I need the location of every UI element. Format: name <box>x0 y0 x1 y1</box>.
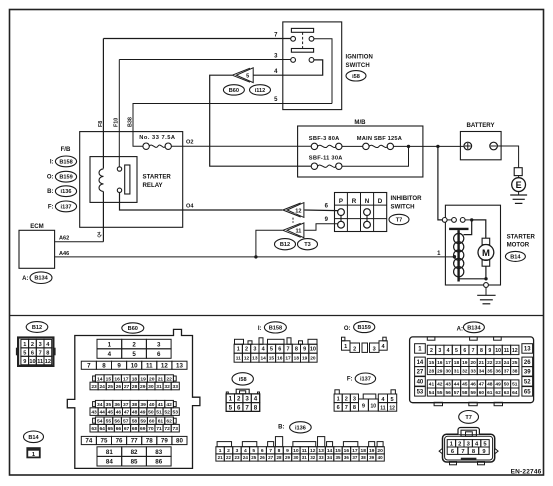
svg-text:52: 52 <box>164 409 170 415</box>
svg-text:60: 60 <box>479 390 485 396</box>
svg-text:62: 62 <box>166 418 172 424</box>
svg-text:F8: F8 <box>98 121 104 127</box>
svg-text:69: 69 <box>140 426 146 432</box>
svg-text:12: 12 <box>295 208 301 214</box>
svg-text:5: 5 <box>270 347 273 353</box>
svg-text:No. 33 7.5A: No. 33 7.5A <box>139 135 175 141</box>
svg-text:41: 41 <box>158 402 164 408</box>
svg-text:1: 1 <box>344 344 347 350</box>
svg-text:STARTER: STARTER <box>507 233 536 240</box>
svg-text:27: 27 <box>124 384 130 390</box>
svg-text:67: 67 <box>124 426 130 432</box>
svg-text:17: 17 <box>445 360 451 366</box>
svg-text:63: 63 <box>504 390 510 396</box>
svg-text:6: 6 <box>278 347 281 353</box>
svg-text:34: 34 <box>327 455 333 460</box>
svg-text:13: 13 <box>318 448 324 454</box>
svg-text:8: 8 <box>254 404 258 411</box>
svg-text:65: 65 <box>524 390 531 396</box>
svg-text:81: 81 <box>106 449 113 456</box>
svg-text:3: 3 <box>245 396 249 403</box>
svg-text:BATTERY: BATTERY <box>466 122 494 129</box>
svg-text:I:: I: <box>258 326 262 332</box>
svg-text:B14: B14 <box>28 435 39 441</box>
svg-text:SWITCH: SWITCH <box>391 203 415 210</box>
svg-text:O2: O2 <box>186 140 193 146</box>
svg-text:15: 15 <box>269 355 275 361</box>
svg-text:1: 1 <box>237 347 240 353</box>
svg-text:EN-22746: EN-22746 <box>511 468 542 475</box>
svg-text:P: P <box>339 198 343 205</box>
svg-text:11: 11 <box>295 229 301 235</box>
svg-text:63: 63 <box>91 426 97 432</box>
svg-text:32: 32 <box>310 455 316 460</box>
svg-text:47: 47 <box>479 382 485 388</box>
svg-text:29: 29 <box>140 384 146 390</box>
svg-text:75: 75 <box>101 438 108 445</box>
svg-text:B60: B60 <box>128 326 138 332</box>
svg-text:MAIN SBF 125A: MAIN SBF 125A <box>357 136 402 142</box>
svg-text:18: 18 <box>132 376 138 382</box>
svg-text:4: 4 <box>244 448 247 454</box>
svg-text:10: 10 <box>293 448 299 454</box>
svg-text:34: 34 <box>479 368 485 374</box>
svg-text:26: 26 <box>260 455 266 460</box>
svg-text:82: 82 <box>131 449 138 456</box>
svg-text:40: 40 <box>149 402 155 408</box>
svg-text:O:: O: <box>47 175 54 181</box>
svg-text:35: 35 <box>335 455 341 460</box>
svg-text:A:: A: <box>22 276 28 282</box>
svg-text:2: 2 <box>430 348 433 354</box>
svg-text:3: 3 <box>39 342 42 348</box>
svg-text:3: 3 <box>373 346 376 352</box>
svg-text:6: 6 <box>463 348 466 354</box>
svg-text:18: 18 <box>294 355 300 361</box>
svg-text:44: 44 <box>454 382 460 388</box>
svg-text:IGNITION: IGNITION <box>346 55 373 61</box>
svg-text:79: 79 <box>161 438 168 445</box>
svg-text:3: 3 <box>438 348 441 354</box>
svg-text:60: 60 <box>149 418 155 424</box>
svg-text:76: 76 <box>116 438 123 445</box>
svg-text:20: 20 <box>377 448 383 454</box>
svg-text:I:: I: <box>50 159 54 165</box>
svg-text:O:: O: <box>344 326 351 332</box>
svg-text:5: 5 <box>246 74 249 80</box>
svg-text:19: 19 <box>369 448 375 454</box>
svg-text:80: 80 <box>176 438 183 445</box>
svg-text:5: 5 <box>455 348 458 354</box>
svg-text:15: 15 <box>429 360 435 366</box>
svg-text:7: 7 <box>269 448 272 454</box>
svg-text:30: 30 <box>445 368 451 374</box>
svg-text:53: 53 <box>173 409 179 415</box>
svg-text:B60: B60 <box>229 88 239 94</box>
svg-text:36: 36 <box>495 368 501 374</box>
svg-text:71: 71 <box>156 426 162 432</box>
svg-text:14: 14 <box>260 355 266 361</box>
svg-text:3: 3 <box>353 396 356 402</box>
svg-text:20: 20 <box>470 360 476 366</box>
svg-text:16: 16 <box>437 360 443 366</box>
svg-text:F10: F10 <box>114 118 120 127</box>
svg-text:6: 6 <box>261 448 264 454</box>
svg-text:64: 64 <box>99 426 105 432</box>
svg-text:5: 5 <box>132 351 136 358</box>
svg-text:17: 17 <box>285 355 291 361</box>
svg-text:7: 7 <box>39 350 42 356</box>
svg-text:16: 16 <box>344 448 350 454</box>
svg-text:31: 31 <box>454 368 460 374</box>
svg-text:B:: B: <box>47 189 53 195</box>
svg-text:B159: B159 <box>59 175 72 181</box>
svg-text:35: 35 <box>106 402 112 408</box>
svg-text:MOTOR: MOTOR <box>507 241 530 248</box>
svg-text:57: 57 <box>454 390 460 396</box>
svg-text:86: 86 <box>155 458 162 465</box>
svg-text:33: 33 <box>173 384 179 390</box>
svg-text:38: 38 <box>361 455 367 460</box>
svg-text:78: 78 <box>146 438 153 445</box>
svg-text:5: 5 <box>391 397 394 403</box>
svg-text:B12: B12 <box>32 325 42 331</box>
svg-text:8: 8 <box>480 348 483 354</box>
svg-text:12: 12 <box>389 406 395 412</box>
svg-text:22: 22 <box>487 360 493 366</box>
svg-text:10: 10 <box>131 362 138 369</box>
svg-text:45: 45 <box>108 409 114 415</box>
svg-text:8: 8 <box>102 362 106 369</box>
svg-text:12: 12 <box>161 362 168 369</box>
svg-text:1: 1 <box>108 341 112 348</box>
svg-text:F:: F: <box>48 204 54 210</box>
svg-text:68: 68 <box>132 426 138 432</box>
svg-text:7: 7 <box>287 347 290 353</box>
svg-text:1: 1 <box>23 342 26 348</box>
svg-text:T7: T7 <box>396 218 403 224</box>
svg-text:B134: B134 <box>34 276 48 282</box>
svg-text:30: 30 <box>148 384 154 390</box>
svg-text:B:: B: <box>278 424 284 430</box>
svg-text:28: 28 <box>132 384 138 390</box>
svg-text:40: 40 <box>417 380 424 386</box>
svg-text:51: 51 <box>156 409 162 415</box>
svg-text:58: 58 <box>132 418 138 424</box>
svg-text:44: 44 <box>99 409 105 415</box>
svg-text:51: 51 <box>512 382 518 388</box>
svg-text:7: 7 <box>472 348 475 354</box>
svg-text:B158: B158 <box>269 325 282 331</box>
svg-text:M: M <box>482 248 490 259</box>
svg-text:14: 14 <box>97 376 103 382</box>
svg-text:50: 50 <box>504 382 510 388</box>
svg-text:19: 19 <box>302 355 308 361</box>
svg-text:7: 7 <box>245 404 249 411</box>
svg-text:37: 37 <box>123 402 129 408</box>
svg-text:30: 30 <box>293 455 299 460</box>
svg-text:22: 22 <box>166 376 172 382</box>
svg-text:i137: i137 <box>61 204 72 210</box>
svg-text:77: 77 <box>131 438 138 445</box>
svg-text:41: 41 <box>429 382 435 388</box>
svg-text:12: 12 <box>45 359 51 365</box>
svg-text:37: 37 <box>504 368 510 374</box>
svg-text:33: 33 <box>319 455 325 460</box>
svg-text:SBF-11 30A: SBF-11 30A <box>309 156 343 162</box>
svg-text:35: 35 <box>487 368 493 374</box>
svg-text:16: 16 <box>277 355 283 361</box>
svg-text:10: 10 <box>495 348 501 354</box>
svg-text:2: 2 <box>245 347 248 353</box>
svg-text:26: 26 <box>524 360 531 366</box>
svg-text:34: 34 <box>97 402 103 408</box>
svg-text:7: 7 <box>345 405 348 411</box>
svg-text:M/B: M/B <box>354 119 366 126</box>
svg-text:28: 28 <box>277 455 283 460</box>
svg-text:STARTER: STARTER <box>143 174 172 181</box>
svg-text:2: 2 <box>345 396 348 402</box>
svg-text:14: 14 <box>327 448 333 454</box>
svg-text:4: 4 <box>108 351 112 358</box>
svg-text:49: 49 <box>495 382 501 388</box>
svg-text:8: 8 <box>353 405 356 411</box>
svg-text:9: 9 <box>23 359 26 365</box>
svg-text:9: 9 <box>286 448 289 454</box>
svg-text:10: 10 <box>29 359 35 365</box>
svg-text:3: 3 <box>236 448 239 454</box>
svg-text:ECM: ECM <box>30 223 44 230</box>
svg-text:5: 5 <box>229 404 233 411</box>
svg-text:24: 24 <box>99 384 105 390</box>
svg-text:2: 2 <box>132 341 136 348</box>
svg-text:85: 85 <box>131 458 138 465</box>
svg-text:23: 23 <box>91 384 97 390</box>
svg-text:15: 15 <box>106 376 112 382</box>
svg-text:11: 11 <box>504 348 510 354</box>
svg-text:62: 62 <box>495 390 501 396</box>
svg-text:11: 11 <box>37 359 43 365</box>
svg-text:42: 42 <box>437 382 443 388</box>
svg-text:84: 84 <box>106 458 113 465</box>
svg-text:32: 32 <box>462 368 468 374</box>
svg-text:8: 8 <box>278 448 281 454</box>
svg-text:B158: B158 <box>59 159 72 165</box>
svg-text:20: 20 <box>310 355 316 361</box>
svg-text:43: 43 <box>91 409 97 415</box>
svg-text:O4: O4 <box>186 203 194 209</box>
svg-text:D: D <box>378 198 383 205</box>
svg-text:23: 23 <box>495 360 501 366</box>
svg-text:13: 13 <box>252 355 258 361</box>
svg-text:9: 9 <box>362 404 365 410</box>
svg-text:i58: i58 <box>239 377 247 383</box>
svg-text:11: 11 <box>236 355 241 361</box>
svg-text:59: 59 <box>470 390 476 396</box>
svg-text:13: 13 <box>176 362 183 369</box>
svg-text:54: 54 <box>97 418 103 424</box>
svg-text:56: 56 <box>445 390 451 396</box>
svg-text:29: 29 <box>285 455 291 460</box>
svg-text:21: 21 <box>218 455 224 460</box>
svg-text:9: 9 <box>303 347 306 353</box>
svg-text:31: 31 <box>156 384 162 390</box>
svg-text:i58: i58 <box>352 74 360 80</box>
svg-text:33: 33 <box>470 368 476 374</box>
svg-text:45: 45 <box>462 382 468 388</box>
svg-text:36: 36 <box>344 455 350 460</box>
svg-text:46: 46 <box>470 382 476 388</box>
svg-text:SWITCH: SWITCH <box>346 63 370 69</box>
svg-text:12: 12 <box>244 355 250 361</box>
svg-text:46: 46 <box>116 409 122 415</box>
svg-text:4: 4 <box>447 348 450 354</box>
svg-text:3: 3 <box>157 341 161 348</box>
svg-text:INHIBITOR: INHIBITOR <box>391 195 423 202</box>
svg-text:25: 25 <box>108 384 114 390</box>
svg-text:20: 20 <box>149 376 155 382</box>
svg-text:12: 12 <box>310 448 316 454</box>
svg-text:21: 21 <box>479 360 485 366</box>
svg-text:38: 38 <box>132 402 138 408</box>
svg-text:Q4: Q4 <box>96 231 101 237</box>
svg-text:18: 18 <box>454 360 460 366</box>
svg-text:55: 55 <box>437 390 443 396</box>
svg-text:59: 59 <box>140 418 146 424</box>
svg-text:19: 19 <box>462 360 468 366</box>
svg-text:25: 25 <box>251 455 257 460</box>
svg-text:49: 49 <box>140 409 146 415</box>
svg-text:22: 22 <box>226 455 232 460</box>
svg-text:61: 61 <box>158 418 164 424</box>
svg-text:10: 10 <box>371 404 377 410</box>
svg-text:26: 26 <box>116 384 122 390</box>
svg-text:6: 6 <box>337 405 340 411</box>
svg-text:1: 1 <box>337 396 340 402</box>
svg-text:24: 24 <box>243 455 249 460</box>
svg-text:54: 54 <box>429 390 435 396</box>
svg-text:i136: i136 <box>295 425 306 431</box>
svg-text:2: 2 <box>353 346 356 352</box>
svg-text:14: 14 <box>417 360 424 366</box>
svg-text:56: 56 <box>114 418 120 424</box>
svg-text:1: 1 <box>219 448 222 454</box>
svg-text:65: 65 <box>108 426 114 432</box>
svg-text:RELAY: RELAY <box>143 182 163 189</box>
svg-text:39: 39 <box>524 370 531 376</box>
svg-text:2: 2 <box>237 396 241 403</box>
svg-text:83: 83 <box>155 449 162 456</box>
svg-text:T3: T3 <box>304 242 311 248</box>
svg-text:2: 2 <box>31 342 34 348</box>
svg-text:53: 53 <box>417 390 424 396</box>
svg-text:3: 3 <box>253 347 256 353</box>
svg-text:39: 39 <box>140 402 146 408</box>
svg-text:40: 40 <box>378 455 384 460</box>
svg-text:27: 27 <box>417 370 424 376</box>
svg-text:8: 8 <box>46 350 49 356</box>
svg-text:B38: B38 <box>128 117 134 127</box>
svg-text:58: 58 <box>462 390 468 396</box>
svg-text:5: 5 <box>252 448 255 454</box>
svg-text:17: 17 <box>123 376 129 382</box>
svg-text:19: 19 <box>140 376 146 382</box>
svg-text:T7: T7 <box>465 415 472 421</box>
svg-text:10: 10 <box>310 347 316 353</box>
svg-text:21: 21 <box>158 376 164 382</box>
svg-text:24: 24 <box>504 360 510 366</box>
svg-text:16: 16 <box>114 376 120 382</box>
svg-text:1: 1 <box>229 396 233 403</box>
svg-text:11: 11 <box>302 448 307 454</box>
svg-text:A:: A: <box>457 327 463 333</box>
svg-text:23: 23 <box>234 455 240 460</box>
svg-text:SBF-3 80A: SBF-3 80A <box>309 136 340 142</box>
svg-text:17: 17 <box>352 448 358 454</box>
svg-text:25: 25 <box>512 360 518 366</box>
svg-text:72: 72 <box>164 426 170 432</box>
svg-text:18: 18 <box>361 448 367 454</box>
svg-text:R: R <box>352 198 357 205</box>
svg-text:F:: F: <box>347 377 353 383</box>
svg-text:E: E <box>516 180 522 190</box>
svg-text:B14: B14 <box>510 254 521 260</box>
svg-text:31: 31 <box>302 455 308 460</box>
svg-text:52: 52 <box>524 380 531 386</box>
svg-text:A62: A62 <box>59 236 69 242</box>
svg-text:N: N <box>365 198 370 205</box>
svg-text:12: 12 <box>512 348 518 354</box>
svg-text:64: 64 <box>512 390 518 396</box>
svg-text:43: 43 <box>445 382 451 388</box>
svg-text:37: 37 <box>352 455 358 460</box>
svg-text:7: 7 <box>461 449 464 455</box>
svg-text:57: 57 <box>123 418 129 424</box>
svg-text:11: 11 <box>380 406 386 412</box>
svg-text:A46: A46 <box>59 251 69 257</box>
svg-text:29: 29 <box>437 368 443 374</box>
svg-text:2: 2 <box>458 441 461 447</box>
svg-text:42: 42 <box>166 402 172 408</box>
svg-text:B12: B12 <box>280 242 290 248</box>
svg-text:38: 38 <box>512 368 518 374</box>
svg-text:i136: i136 <box>61 189 72 195</box>
svg-text:B134: B134 <box>467 325 481 331</box>
svg-text:2: 2 <box>227 448 230 454</box>
svg-text:48: 48 <box>132 409 138 415</box>
svg-text:48: 48 <box>487 382 493 388</box>
svg-text:32: 32 <box>164 384 170 390</box>
svg-text:39: 39 <box>369 455 375 460</box>
svg-text:7: 7 <box>87 362 91 369</box>
svg-text:5: 5 <box>23 350 26 356</box>
svg-text:47: 47 <box>124 409 130 415</box>
svg-text:i112: i112 <box>255 88 266 94</box>
svg-text:9: 9 <box>117 362 121 369</box>
svg-text:i137: i137 <box>360 377 371 383</box>
svg-text:6: 6 <box>157 351 161 358</box>
svg-text:28: 28 <box>429 368 435 374</box>
svg-text:15: 15 <box>335 448 341 454</box>
svg-text:27: 27 <box>268 455 274 460</box>
svg-text:61: 61 <box>487 390 493 396</box>
svg-text:66: 66 <box>116 426 122 432</box>
svg-text:6: 6 <box>31 350 34 356</box>
svg-text:6: 6 <box>237 404 241 411</box>
svg-text:73: 73 <box>173 426 179 432</box>
svg-text:F/B: F/B <box>61 146 71 153</box>
svg-text:11: 11 <box>146 362 153 369</box>
